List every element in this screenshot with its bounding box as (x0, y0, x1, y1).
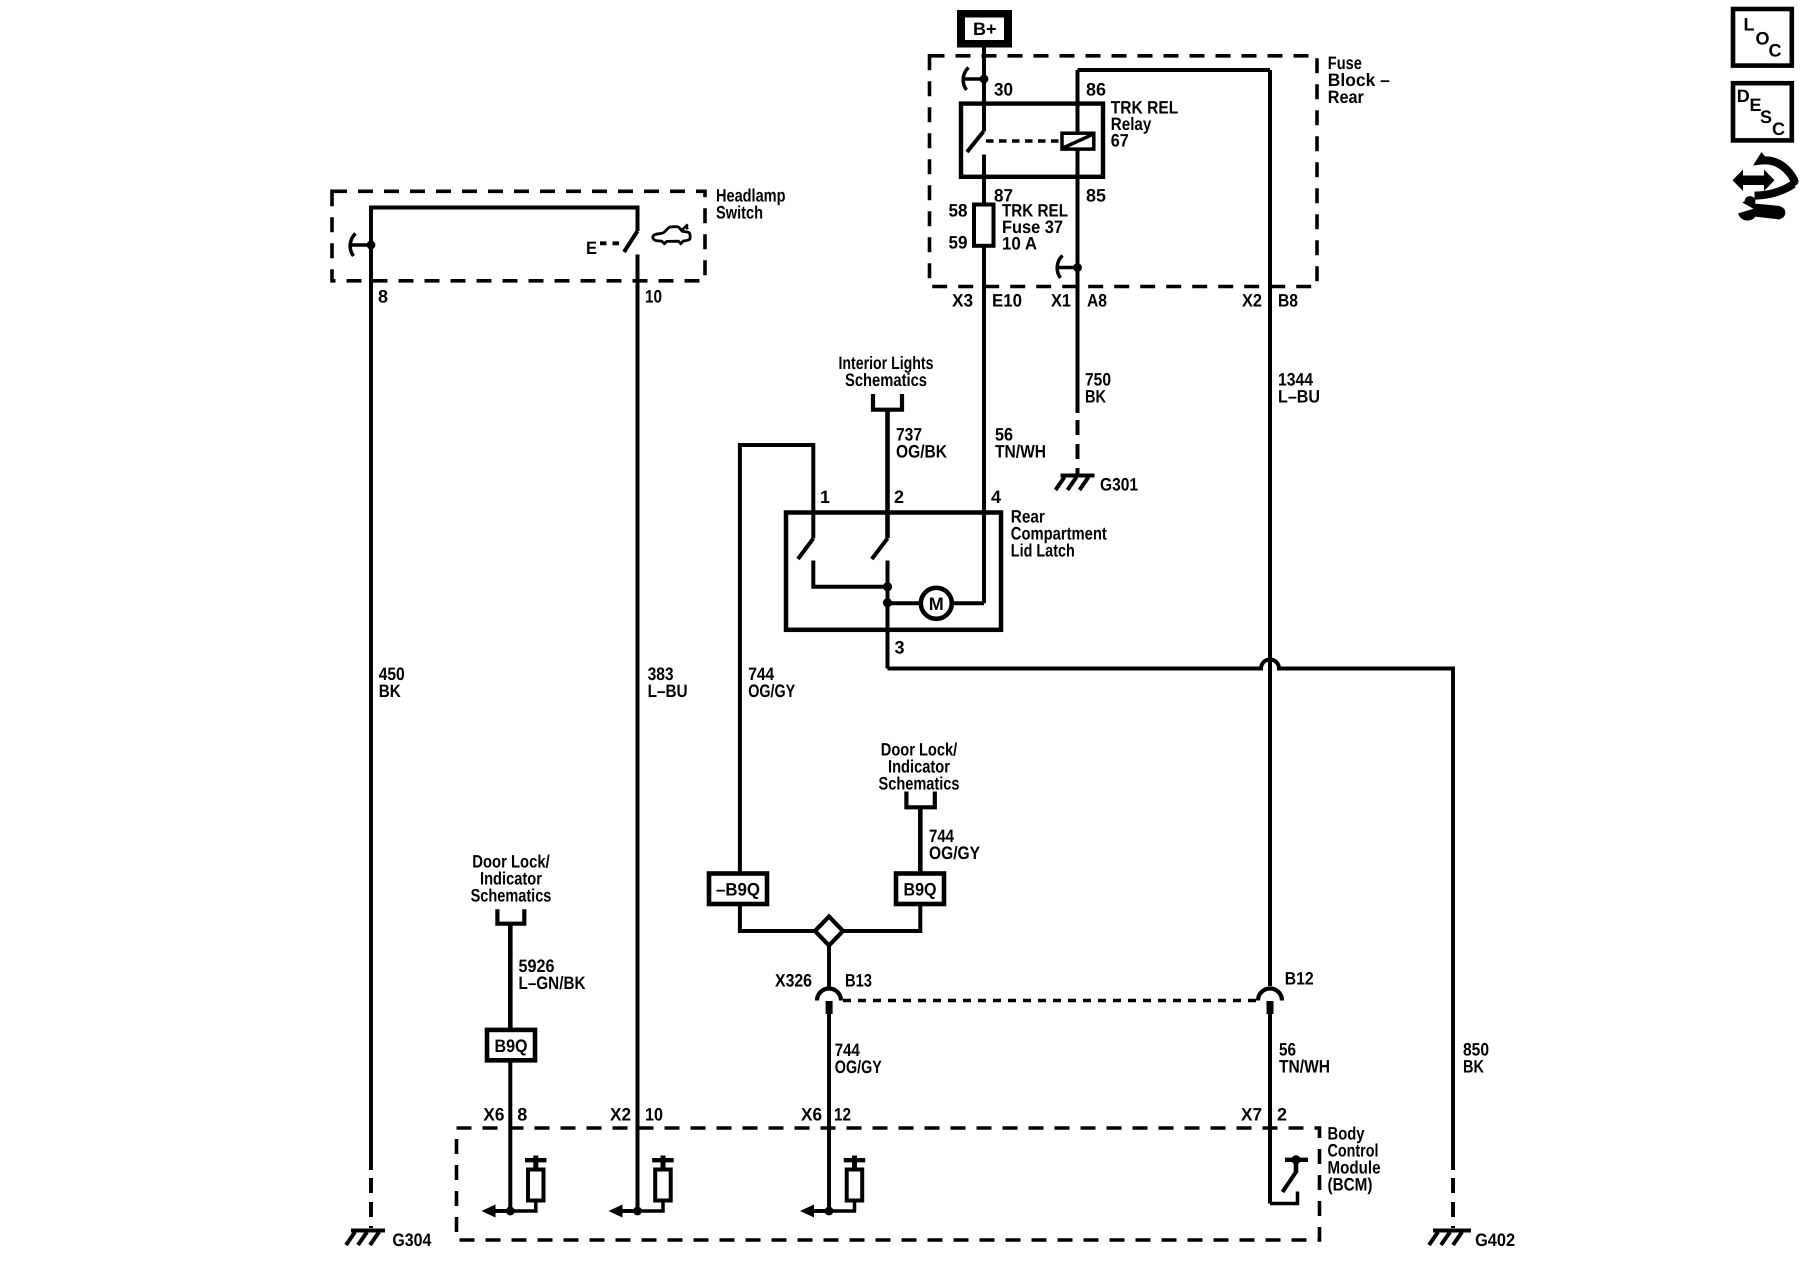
svg-text:G301: G301 (1100, 475, 1138, 495)
wire B+ to relay pin 30 (982, 47, 986, 132)
BCM driver pin 10 (609, 1128, 674, 1218)
wire 744 OG/GY to splice right branch (918, 807, 923, 873)
battery feed B+ (957, 10, 1012, 48)
label 850 BK (1463, 1040, 1489, 1077)
label 450 BK (379, 664, 405, 701)
label 383 L-BU (648, 664, 688, 701)
svg-text:Switch: Switch (716, 203, 763, 223)
wire fuse output E10 (982, 246, 986, 287)
label TRK REL Relay 67 (1111, 98, 1179, 151)
svg-text:Schematics: Schematics (471, 886, 552, 906)
label Headlamp Switch (716, 186, 786, 223)
dotted link B13 to B12 (843, 999, 1256, 1003)
LOC legend box (1733, 9, 1792, 66)
ground G304 (346, 1231, 385, 1246)
wire 750 BK solid (1076, 287, 1080, 414)
svg-text:3: 3 (895, 638, 905, 658)
connector B12 (1258, 989, 1282, 1015)
in-line harness connector B9Q right (896, 874, 944, 905)
relay TRK REL box (961, 104, 1103, 177)
DESC legend box (1733, 83, 1792, 140)
wire B9Q left to BCM (508, 1060, 512, 1128)
wire 450 BK (369, 245, 373, 1170)
body control module dashed box (457, 1128, 1320, 1240)
svg-text:BK: BK (1463, 1057, 1484, 1077)
svg-text:OG/BK: OG/BK (896, 442, 947, 462)
wire 744 OG/GY upper L run (740, 445, 813, 874)
repair reference icon curved arrow (1753, 152, 1799, 196)
label TRK REL Fuse 37 10 A (1002, 201, 1068, 254)
svg-text:8: 8 (378, 287, 388, 307)
label 744 OG/GY lower (835, 1040, 882, 1077)
BCM driver pin 12 (800, 1128, 865, 1218)
svg-text:C: C (1769, 41, 1782, 61)
svg-text:B+: B+ (973, 19, 997, 39)
wire B9Q right to splice (843, 904, 920, 931)
rear compartment lid latch box (786, 513, 1001, 630)
svg-text:–B9Q: –B9Q (716, 880, 760, 900)
svg-text:OG/GY: OG/GY (748, 681, 795, 701)
headlamp internal wire top run (371, 208, 638, 246)
svg-text:59: 59 (949, 233, 968, 253)
svg-text:X3: X3 (952, 291, 973, 311)
svg-text:E: E (586, 238, 597, 258)
relay actuation dashed link (986, 139, 1062, 142)
svg-text:TN/WH: TN/WH (995, 442, 1046, 462)
headlamp switch blade (624, 231, 638, 252)
svg-text:L: L (1744, 15, 1755, 35)
svg-text:67: 67 (1111, 131, 1129, 151)
label 737 OG/BK (896, 425, 947, 462)
wire 850 BK dashed to ground (1451, 1178, 1455, 1228)
svg-text:2: 2 (894, 487, 904, 507)
svg-text:8: 8 (517, 1105, 527, 1125)
latch switch 1 blade (798, 538, 813, 559)
svg-text:10: 10 (645, 287, 662, 307)
BCM driver pin 8 (482, 1128, 547, 1218)
svg-text:G402: G402 (1475, 1230, 1515, 1250)
repair reference icon wrench (1731, 196, 1785, 221)
ground G301 (1056, 476, 1095, 491)
in-line harness connector -B9Q left (709, 874, 767, 905)
latch switch 1 lower wire (813, 561, 887, 587)
svg-text:Lid Latch: Lid Latch (1011, 541, 1075, 561)
connector hook at pin 30 (963, 68, 988, 91)
svg-text:E10: E10 (992, 291, 1022, 311)
label Body Control Module BCM (1328, 1124, 1381, 1195)
junction dot motor feed (883, 598, 892, 607)
svg-text:X2: X2 (610, 1105, 631, 1125)
svg-text:X2: X2 (1242, 291, 1262, 311)
label 744 OG/GY right (929, 826, 980, 863)
splice diamond (815, 917, 843, 946)
svg-text:L–BU: L–BU (1278, 387, 1320, 407)
svg-text:A8: A8 (1087, 291, 1107, 311)
off-page reference Door Lock Indicator Schematics left (471, 852, 552, 924)
svg-text:Schematics: Schematics (845, 370, 927, 390)
svg-text:C: C (1772, 119, 1785, 139)
wire 383 L-BU (636, 255, 640, 1129)
svg-text:10: 10 (645, 1105, 663, 1125)
svg-text:B12: B12 (1285, 969, 1314, 989)
wire 5926 L-GN/BK (508, 924, 513, 1030)
svg-text:B9Q: B9Q (495, 1036, 528, 1056)
label 1344 L-BU (1278, 370, 1320, 407)
svg-text:85: 85 (1086, 186, 1106, 206)
svg-text:X326: X326 (775, 971, 812, 991)
svg-text:OG/GY: OG/GY (929, 843, 980, 863)
svg-text:L–BU: L–BU (648, 681, 688, 701)
label Fuse Block Rear (1328, 53, 1390, 107)
latch switch 2 lower wire (886, 561, 890, 669)
wire 744 OG/GY to BCM (827, 1014, 831, 1128)
svg-text:1: 1 (820, 487, 830, 507)
wire 750 BK dashed to ground (1076, 420, 1080, 474)
svg-text:B8: B8 (1278, 291, 1298, 311)
label 750 BK (1085, 370, 1111, 407)
svg-text:4: 4 (991, 487, 1001, 507)
svg-text:B13: B13 (845, 971, 872, 991)
svg-text:G304: G304 (392, 1230, 431, 1250)
svg-text:S: S (1760, 107, 1772, 127)
svg-text:12: 12 (834, 1105, 851, 1125)
label 744 OG/GY left (748, 664, 795, 701)
svg-text:Rear: Rear (1328, 87, 1364, 107)
connector hook at headlamp pin 8 (350, 234, 375, 257)
label Rear Compartment Lid Latch (1011, 507, 1107, 561)
svg-text:BK: BK (1085, 387, 1106, 407)
svg-text:X7: X7 (1241, 1105, 1262, 1125)
relay coil pin 86 wire (1076, 70, 1080, 133)
relay coil (1062, 133, 1094, 149)
svg-text:X6: X6 (483, 1105, 504, 1125)
svg-text:BK: BK (379, 681, 401, 701)
motor M (921, 588, 952, 619)
motor feed wire (888, 601, 921, 605)
svg-text:X1: X1 (1051, 291, 1071, 311)
wire -B9Q to splice (740, 904, 815, 931)
svg-text:B9Q: B9Q (904, 880, 937, 900)
latch switch 2 blade (872, 538, 888, 559)
connector hook at pin A8 (1057, 256, 1082, 279)
svg-text:2: 2 (1277, 1105, 1287, 1125)
wire 450 BK dashed to ground (369, 1178, 373, 1228)
car icon (653, 225, 690, 244)
svg-text:30: 30 (994, 80, 1013, 100)
svg-text:(BCM): (BCM) (1328, 1175, 1373, 1195)
in-line harness connector B9Q left (487, 1030, 535, 1060)
wire latch pin 3 to ground run with hop (888, 660, 1454, 1171)
off-page reference Door Lock Indicator Schematics right (879, 740, 960, 808)
svg-text:OG/GY: OG/GY (835, 1057, 882, 1077)
wire 86 to B8 top run (1078, 68, 1271, 72)
svg-text:10 A: 10 A (1002, 234, 1037, 254)
label 56 TN/WH lower (1279, 1040, 1330, 1077)
relay coil pin 85 wire (1076, 149, 1080, 286)
svg-text:TN/WH: TN/WH (1279, 1057, 1330, 1077)
motor to pin 4 wire (952, 601, 984, 605)
svg-text:M: M (929, 594, 944, 614)
label 5926 L-GN/BK (519, 956, 586, 993)
svg-text:58: 58 (949, 201, 968, 221)
ground G402 (1429, 1231, 1471, 1246)
repair reference icon double arrow (1733, 170, 1775, 192)
label 56 TN/WH upper (995, 425, 1046, 462)
wire 56 TN/WH B12 to BCM (1268, 1014, 1272, 1128)
wire 56 TN/WH fuse to latch pin 4 (982, 287, 986, 604)
off-page reference Interior Lights Schematics (839, 353, 934, 410)
svg-text:D: D (1737, 86, 1750, 106)
connector X326 B13 (817, 989, 841, 1015)
svg-text:Schematics: Schematics (879, 774, 960, 794)
wire 737 OG/BK (885, 410, 890, 539)
headlamp switch dashed box (332, 191, 705, 280)
wire splice to connector B13 (827, 946, 831, 988)
wire B8 1344 L-BU vertical (1268, 70, 1272, 986)
svg-text:86: 86 (1086, 80, 1106, 100)
relay switch blade (967, 132, 984, 153)
svg-text:X6: X6 (801, 1105, 822, 1125)
svg-text:L–GN/BK: L–GN/BK (519, 973, 586, 993)
headlamp switch E position marker (586, 238, 621, 258)
BCM switch sense pin 2 (1270, 1128, 1308, 1204)
junction dot switch outputs (883, 582, 892, 591)
svg-text:O: O (1756, 29, 1770, 49)
fuse block rear dashed box (930, 56, 1318, 287)
relay switch lower contact wire (982, 155, 986, 205)
fuse TRK REL Fuse 37 10A (974, 205, 994, 246)
